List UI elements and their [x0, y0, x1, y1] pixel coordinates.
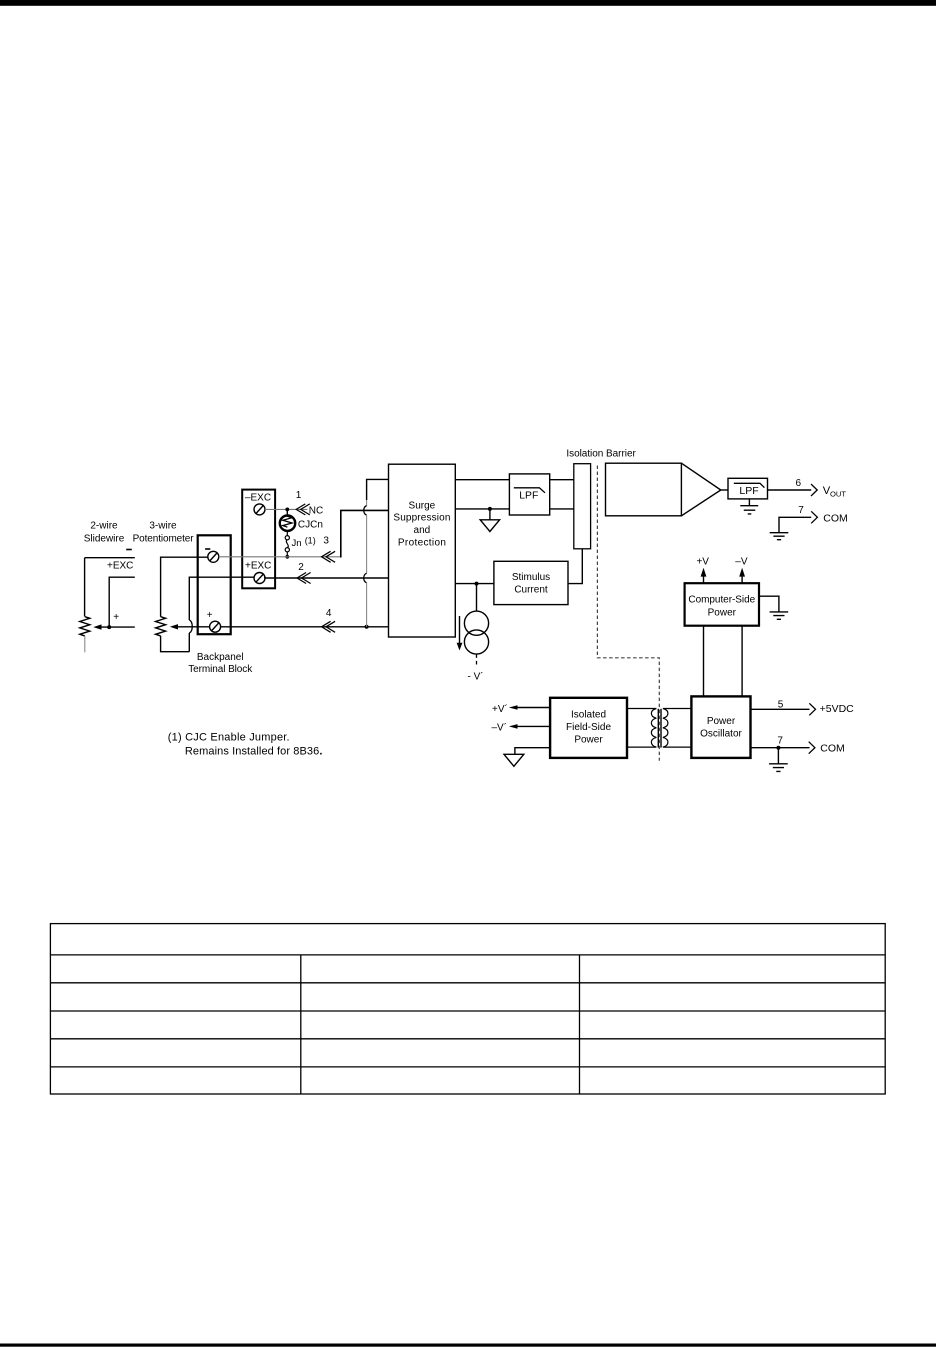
wire power bus left: [703, 626, 705, 698]
svg-text:Suppression: Suppression: [393, 513, 450, 524]
label COM (top): [823, 512, 848, 524]
label + terminal: [207, 610, 213, 621]
footnote: [168, 731, 323, 757]
label 7 (top): [798, 505, 804, 516]
label 2-wire Slidewire: [84, 520, 125, 544]
resistor slidewire tail: [84, 636, 86, 652]
junction node CJC bottom: [285, 555, 289, 559]
table row line 5: [50, 1066, 885, 1068]
label +EXC terminal: [245, 560, 271, 571]
svg-text:+: +: [113, 612, 119, 623]
svg-text:LPF: LPF: [739, 485, 758, 497]
svg-text:Stimulus: Stimulus: [512, 572, 550, 583]
label (1) footnote ref: [305, 535, 316, 545]
svg-text:5: 5: [778, 700, 784, 711]
svg-text:–V: –V: [735, 556, 748, 567]
wire +5VDC 5: [751, 708, 810, 710]
svg-text:+V´: +V´: [492, 703, 508, 715]
wire 1 NC stub: [265, 508, 307, 510]
arrow wire 3: [322, 551, 336, 562]
label +V': [492, 703, 508, 715]
label Isolation Barrier: [566, 449, 636, 460]
wire power bus right: [741, 626, 743, 698]
svg-text:+5VDC: +5VDC: [820, 703, 855, 715]
dashed barrier line: [597, 466, 659, 761]
terminal screw +EXC: [254, 573, 265, 584]
svg-text:COM: COM: [820, 743, 845, 755]
svg-text:Slidewire: Slidewire: [84, 534, 125, 545]
wire LPF1 to barrier bottom: [550, 508, 574, 510]
table header separator: [50, 954, 885, 956]
arrow out 6: [811, 484, 817, 496]
label +5VDC: [820, 703, 855, 715]
dashed stub -V': [476, 654, 478, 666]
wire 2: [264, 577, 388, 579]
wire slidewire plus: [109, 577, 135, 627]
svg-text:+: +: [207, 610, 213, 621]
label -V: [735, 556, 748, 567]
svg-text:+EXC: +EXC: [245, 560, 271, 571]
filter LPF2: [728, 478, 768, 499]
table row line 3: [50, 1010, 885, 1012]
wire surge input top: [367, 479, 389, 500]
label -V': [492, 722, 508, 734]
resistor potentiometer: [156, 617, 166, 636]
junction stimulus tap: [475, 582, 479, 586]
wire vertical gray with hops: [364, 500, 367, 627]
wire COM 7 (bottom): [751, 747, 810, 749]
label 5: [778, 700, 784, 711]
backpanel terminal block: [198, 535, 231, 634]
terminal screw minus: [208, 551, 219, 562]
svg-text:Oscillator: Oscillator: [700, 728, 742, 739]
wire surge to LPF top: [455, 479, 509, 481]
junction wire 4: [365, 625, 369, 629]
table row line 2: [50, 982, 885, 984]
svg-text:Backpanel: Backpanel: [197, 652, 244, 663]
wire pot wiper: [170, 624, 210, 629]
sensor CJCn: [280, 516, 295, 531]
arrow wire 1: [296, 504, 310, 515]
table column divider 1: [300, 955, 302, 1094]
wire slidewire wiper: [93, 624, 135, 629]
label 1: [296, 490, 302, 501]
junction ground tap: [488, 507, 492, 511]
terminal screw plus: [210, 621, 221, 632]
svg-text:2: 2: [298, 562, 304, 573]
header bar: [0, 0, 936, 6]
EXC terminal block: [242, 490, 275, 589]
svg-text:–EXC: –EXC: [245, 493, 271, 504]
svg-text:3-wire: 3-wire: [149, 520, 177, 531]
wire LPF1 to barrier top: [550, 479, 574, 481]
svg-text:(1): (1): [305, 535, 316, 545]
block surge suppression: [389, 464, 456, 637]
svg-text:LPF: LPF: [519, 490, 538, 501]
ground field (triangle): [480, 509, 499, 532]
label -V' (current source): [468, 670, 484, 682]
arrow +V up: [701, 568, 707, 584]
wire pot top: [161, 557, 209, 617]
svg-text:Surge: Surge: [409, 500, 436, 511]
svg-text:CJCn: CJCn: [298, 519, 323, 530]
wire slidewire top: [85, 558, 135, 617]
wire to current source: [476, 584, 478, 612]
wire barrier to stimulus: [568, 549, 582, 584]
svg-text:7: 7: [777, 736, 783, 747]
junction node CJC top: [285, 508, 289, 516]
block stimulus current: [494, 561, 568, 604]
label VOUT: [823, 485, 847, 499]
svg-text:Field-Side: Field-Side: [566, 722, 611, 733]
wire pot return: [161, 577, 255, 652]
svg-text:NC: NC: [309, 506, 323, 517]
label + (slidewire): [113, 612, 119, 623]
svg-text:6: 6: [796, 478, 802, 489]
wire -V' out: [509, 724, 550, 729]
svg-text:Remains Installed for 8B36.: Remains Installed for 8B36.: [185, 745, 323, 757]
op-amp isolation amplifier: [606, 463, 721, 516]
block power oscillator: [691, 696, 750, 758]
wire surge to stimulus: [455, 583, 494, 585]
label 2: [298, 562, 304, 573]
terminal screw -EXC: [254, 504, 265, 515]
svg-text:COM: COM: [823, 512, 848, 524]
ground computer-side: [759, 596, 788, 619]
svg-text:Isolated: Isolated: [571, 709, 606, 720]
ground field-side (triangle): [504, 748, 550, 767]
block computer-side power: [685, 583, 759, 626]
current source: [464, 611, 488, 654]
label 7 (bottom): [777, 736, 783, 747]
table column divider 2: [579, 955, 581, 1094]
transformer T1: [627, 709, 691, 748]
isolation barrier bar: [574, 464, 591, 549]
ground COM top: [770, 533, 789, 540]
svg-text:Current: Current: [514, 584, 548, 595]
label NC: [309, 506, 323, 517]
filter LPF1: [509, 474, 549, 515]
svg-text:Protection: Protection: [398, 537, 446, 548]
label 6: [796, 478, 802, 489]
resistor slidewire: [80, 617, 90, 636]
arrow +5VDC: [809, 703, 815, 715]
table outer border: [50, 924, 885, 1094]
label Backpanel Terminal Block: [188, 652, 253, 675]
arrow COM bottom: [809, 742, 815, 754]
ground COM bottom: [769, 748, 788, 772]
svg-text:3: 3: [323, 535, 329, 546]
junction COM ground: [776, 746, 780, 750]
label Jn: [292, 538, 302, 549]
footer rule: [0, 1344, 936, 1347]
wire +V' out: [509, 705, 550, 710]
svg-text:1: 1: [296, 490, 302, 501]
ground LPF2: [740, 499, 758, 514]
svg-text:- V´: - V´: [468, 670, 484, 682]
svg-text:7: 7: [798, 505, 804, 516]
label CJCn: [298, 519, 323, 530]
wire 3: [219, 510, 389, 557]
svg-text:2-wire: 2-wire: [90, 520, 118, 531]
arrow wire 4: [322, 621, 336, 632]
svg-text:Power: Power: [574, 734, 603, 745]
label 3: [323, 535, 329, 546]
svg-text:+V: +V: [696, 556, 709, 567]
wire 4: [220, 626, 388, 628]
label +V: [696, 556, 709, 567]
arrow -V up: [739, 568, 745, 584]
svg-text:4: 4: [326, 608, 332, 619]
label 4: [326, 608, 332, 619]
table row line 4: [50, 1038, 885, 1040]
svg-text:Power: Power: [708, 607, 737, 618]
minus mark terminal: [205, 548, 210, 550]
svg-text:Isolation Barrier: Isolation Barrier: [566, 449, 636, 460]
label COM (bottom): [820, 743, 845, 755]
wire amp to LPF2: [721, 489, 728, 491]
label 3-wire Potentiometer: [133, 520, 195, 544]
minus polarity mark (slidewire): [126, 549, 132, 551]
svg-text:Power: Power: [707, 716, 736, 727]
block isolated field-side power: [550, 698, 627, 758]
arrow COM 7: [811, 511, 817, 523]
svg-text:Potentiometer: Potentiometer: [133, 534, 195, 545]
svg-text:(1) CJC Enable Jumper.: (1) CJC Enable Jumper.: [168, 731, 290, 743]
arrow wire 2: [297, 573, 311, 584]
svg-text:Terminal Block: Terminal Block: [188, 664, 253, 675]
svg-text:Jn: Jn: [292, 538, 302, 549]
wire COM 7 (top): [779, 517, 811, 532]
label +EXC (slidewire): [107, 560, 133, 571]
label -EXC: [245, 493, 271, 504]
arrow current direction: [457, 616, 463, 651]
junction slidewire: [107, 625, 111, 629]
wire output 6: [767, 489, 811, 491]
svg-text:and: and: [414, 525, 431, 536]
wire surge to LPF bottom: [455, 508, 509, 510]
jumper Jn: [285, 531, 289, 557]
svg-text:–V´: –V´: [492, 722, 508, 734]
svg-text:OUT: OUT: [830, 490, 846, 499]
svg-text:Computer-Side: Computer-Side: [688, 595, 755, 606]
svg-text:+EXC: +EXC: [107, 560, 133, 571]
